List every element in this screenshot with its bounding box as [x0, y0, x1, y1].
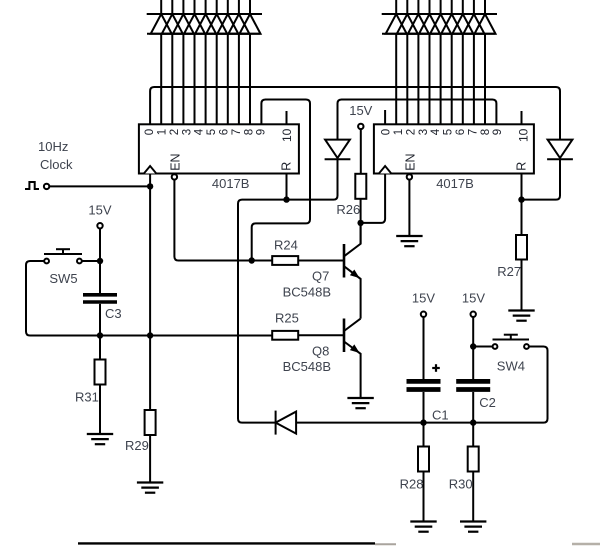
diode D (bottom) body [276, 412, 297, 434]
wire IC2 output 0 stub [384, 110, 386, 124]
svg-text:4017B: 4017B [212, 176, 250, 191]
svg-text:BC548B: BC548B [283, 359, 331, 374]
junction SW5/15V [97, 258, 103, 264]
wire C2 to bottom rail [472, 392, 474, 423]
LED array 2 diode 6 (output 6) [441, 14, 462, 34]
wire 15V to C1 [423, 317, 425, 379]
LED array 1 diode 3 (output 3) [173, 14, 194, 34]
ground below R31 [87, 433, 113, 435]
svg-text:4: 4 [194, 128, 206, 135]
svg-text:10: 10 [516, 128, 530, 142]
10Hz clock source pulse symbol [25, 182, 39, 189]
svg-text:R25: R25 [275, 311, 299, 326]
page rule bottom right gray [572, 543, 600, 545]
svg-text:C2: C2 [479, 395, 496, 410]
svg-text:3: 3 [181, 129, 193, 135]
switch SW4 push-button [493, 335, 530, 349]
wire clock to IC1 clock pin [49, 185, 150, 187]
resistor R24 [272, 256, 298, 265]
svg-text:C1: C1 [432, 408, 449, 423]
svg-text:R29: R29 [125, 438, 149, 453]
transistor Q8 base bar [343, 319, 346, 353]
LED array 1 diode 7 (output 7) [217, 14, 238, 34]
svg-text:R: R [279, 162, 293, 171]
U1 EN pin inverting bubble [172, 174, 177, 179]
LED array 2 diode 2 (output 2) [397, 14, 418, 34]
junction EN/output9/R24 node [249, 257, 255, 263]
wire R24 to Q7 base [298, 260, 344, 262]
svg-text:6: 6 [455, 129, 467, 135]
U1 output pin number labels 0-9 [144, 128, 268, 135]
wire right diode to IC2 R node [522, 159, 561, 200]
U2 EN pin inverting bubble [407, 174, 412, 179]
svg-text:C3: C3 [105, 306, 122, 321]
svg-text:10: 10 [280, 128, 294, 142]
wire R27 top [521, 200, 523, 235]
svg-text:3: 3 [418, 129, 430, 135]
4017B counter U1 body [139, 124, 299, 173]
wire C2 to plates [472, 347, 474, 380]
resistor R29 [145, 410, 156, 435]
LED array 1 anode bus bar [147, 13, 262, 15]
svg-text:1: 1 [393, 129, 405, 135]
junction C2/SW4 [470, 343, 476, 349]
svg-text:9: 9 [492, 129, 504, 135]
svg-text:R31: R31 [75, 390, 99, 405]
wire left diode to IC1 R pin [238, 159, 338, 423]
junction R26/Q7/IC2 clock [357, 220, 363, 226]
wire SW4 right contact to bottom rail [529, 347, 548, 423]
LED array 1 diode 9 (output 9) [240, 14, 261, 34]
ground below R30 [460, 520, 486, 522]
LED array 1 cathode bus bar [147, 33, 261, 35]
diode D (bottom) cathode bar [275, 411, 277, 435]
LED array 2 diode 9 (output 9) [475, 14, 496, 34]
resistor R27 [516, 235, 527, 260]
svg-text:8: 8 [243, 129, 255, 135]
wire R31 top [99, 336, 101, 360]
transistor Q7 base bar [343, 244, 346, 278]
terminal 15V above C2 [471, 312, 476, 317]
capacitor C1 plates [407, 381, 441, 389]
LED array 2 diode 5 (output 5) [430, 14, 451, 34]
wire IC1 EN to R24 node [174, 180, 272, 261]
wire 15V to R26 [360, 129, 362, 174]
svg-text:R24: R24 [274, 238, 298, 253]
svg-text:4017B: 4017B [436, 176, 474, 191]
ground below Q8 emitter [347, 397, 373, 399]
svg-text:9: 9 [256, 129, 268, 135]
svg-text:R: R [514, 162, 528, 171]
4017B counter U2 body [374, 124, 534, 173]
svg-text:2: 2 [405, 129, 417, 135]
diode D (left) cathode bar [325, 158, 351, 160]
Q8 emitter with arrow [344, 342, 361, 399]
svg-text:Clock: Clock [40, 157, 73, 172]
U1 clock pin edge marker [144, 166, 156, 174]
resistor R26 [355, 174, 366, 199]
LED array 2 anode bus bar [382, 13, 497, 15]
wire clock chain to R29 [149, 336, 151, 411]
junction C1/R28 [420, 419, 426, 425]
svg-text:15V: 15V [412, 291, 435, 306]
resistor R28 [418, 447, 429, 472]
svg-text:R27: R27 [497, 264, 521, 279]
junction clock node [147, 183, 153, 189]
svg-text:15V: 15V [88, 203, 111, 218]
LED array 2 diode 4 (output 4) [419, 14, 440, 34]
svg-text:R26: R26 [336, 202, 360, 217]
svg-text:10Hz: 10Hz [38, 139, 68, 154]
LED array 2 diode 1 (output 1) [386, 14, 407, 34]
diode D (right) cathode bar [547, 158, 573, 160]
svg-text:4: 4 [430, 128, 442, 135]
terminal 15V above C3 [97, 223, 102, 228]
Q7 collector [344, 223, 361, 256]
svg-text:EN: EN [404, 153, 418, 170]
wire IC1 output 9 to R24 junction [252, 100, 310, 261]
wire C3 to bottom rail [99, 304, 101, 336]
svg-text:2: 2 [169, 129, 181, 135]
svg-text:0: 0 [144, 129, 156, 135]
C1 polarity + sign [432, 364, 440, 372]
capacitor C2 plates [456, 381, 490, 389]
svg-text:Q8: Q8 [312, 344, 329, 359]
LED array 2 diode 3 (output 3) [408, 14, 429, 34]
wire IC2 EN to ground [408, 180, 410, 237]
svg-text:1: 1 [157, 129, 169, 135]
wire 15V to SW4 node [472, 317, 474, 347]
wires array 2 outputs to IC [396, 34, 485, 125]
svg-text:5: 5 [443, 129, 455, 135]
capacitor C3 plates [83, 295, 117, 302]
svg-text:Q7: Q7 [312, 269, 329, 284]
resistor R31 [95, 360, 106, 385]
LED array 1 diode 8 (output 8) [228, 14, 249, 34]
LED array 2 diode 8 (output 8) [463, 14, 484, 34]
junction IC2 R node [518, 196, 524, 202]
wire bottom diode to C1/C2 rail [296, 422, 543, 424]
diode D (right) body [548, 140, 573, 158]
wire R30 top [472, 423, 474, 447]
svg-text:15V: 15V [349, 103, 372, 118]
svg-text:SW4: SW4 [497, 359, 525, 374]
LED array 1 diode 5 (output 5) [195, 14, 216, 34]
junction C2/R30 [470, 419, 476, 425]
wire R27 to ground [521, 260, 523, 311]
ground below R27 [508, 309, 534, 311]
wire 15V to C3 [99, 228, 101, 293]
svg-text:5: 5 [206, 129, 218, 135]
svg-text:R30: R30 [449, 477, 473, 492]
U2 pin 10 stub (carry out) [521, 111, 523, 124]
svg-text:BC548B: BC548B [283, 285, 331, 300]
ground below IC2 EN [396, 235, 422, 237]
terminal 15V above C1 [421, 312, 426, 317]
U2 clock pin edge marker [379, 166, 391, 174]
Q7 emitter with arrow [344, 266, 361, 318]
clock input terminal [44, 184, 49, 189]
wire R29 to ground [149, 435, 151, 483]
ground below R29 [137, 481, 163, 483]
Q8 collector [344, 319, 361, 331]
junction IC1 R node [283, 196, 289, 202]
svg-text:15V: 15V [462, 291, 485, 306]
LED array 1 diode 4 (output 4) [184, 14, 205, 34]
wire SW5 left contact loop to C3 bottom rail [26, 261, 272, 336]
LED array 1 diode 2 (output 2) [162, 14, 183, 34]
svg-text:8: 8 [480, 129, 492, 135]
junction C3/R31 [97, 332, 103, 338]
LED array 1 diode 1 (output 1) [151, 14, 172, 34]
resistor R25 [272, 331, 298, 340]
wire R28 to ground [423, 472, 425, 522]
diode D (left) body [325, 140, 350, 158]
svg-text:6: 6 [219, 129, 231, 135]
wire R28 top [423, 423, 425, 447]
LED array 1 diode 6 (output 6) [206, 14, 227, 34]
junction clock chain / bottom rail [147, 332, 153, 338]
svg-text:SW5: SW5 [49, 271, 77, 286]
wire SW5 right contact to 15V node [82, 260, 100, 262]
resistor R30 [468, 447, 479, 472]
terminal 15V above R26 [358, 124, 363, 129]
wire R25 to Q8 base [298, 334, 344, 336]
page rule bottom [78, 542, 375, 544]
wire SW4 left contact [473, 346, 492, 348]
wire C1 to bottom rail [423, 392, 425, 423]
wire R31 to ground [99, 385, 101, 435]
svg-text:7: 7 [231, 129, 243, 135]
ground below R28 [410, 520, 436, 522]
wire R30 to ground [472, 472, 474, 522]
wire IC2 R pin stub [521, 174, 523, 200]
wire R26 to Q7 collector [360, 199, 362, 244]
wire IC1 R pin stub [286, 174, 288, 200]
svg-text:0: 0 [381, 129, 393, 135]
LED array 2 diode 7 (output 7) [452, 14, 473, 34]
LED array 2 cathode bus bar [382, 33, 496, 35]
wire to IC2 clock pin [361, 174, 386, 223]
wire bottom rail to diode [242, 422, 276, 424]
switch SW5 push-button [44, 249, 82, 263]
wires array 1 outputs to IC [161, 34, 250, 125]
wire reset loop: IC1 output 0 to right diode (net A) [150, 87, 560, 139]
page rule bottom gray [375, 543, 396, 545]
svg-text:R28: R28 [400, 477, 424, 492]
svg-text:7: 7 [467, 129, 479, 135]
U1 pin 10 stub (carry out) [286, 111, 288, 124]
wire left diode to IC2 clock-chain input [338, 100, 497, 140]
U2 output pin number labels 0-9 [381, 128, 505, 135]
svg-text:EN: EN [169, 153, 183, 170]
wire IC1 clock pin down to divider chain [149, 174, 151, 336]
